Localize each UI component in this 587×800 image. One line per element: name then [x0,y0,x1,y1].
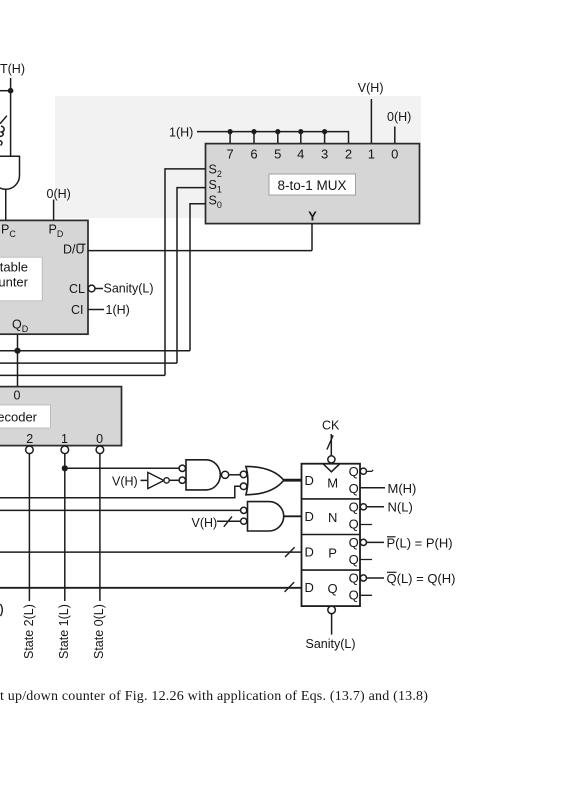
svg-text:1(H): 1(H) [169,126,193,140]
bubble flip-flop sanity input [328,606,336,614]
flip-flop M labels [305,464,359,603]
svg-text:Q: Q [349,571,359,586]
svg-text:7: 7 [226,147,233,162]
wire OR bottom input from long bus [0,486,240,498]
wire CI to 1(H) [88,309,104,311]
bubble AND top input [241,507,247,513]
svg-text:0: 0 [391,147,398,162]
scan background wash [55,96,421,218]
wire Qd down to decoder input [17,334,19,386]
flip-flop divider N/P [302,534,361,536]
svg-text:Q: Q [328,581,338,596]
svg-text:V(H): V(H) [358,81,384,95]
bubble AND bottom input [241,518,247,524]
bubble NAND bottom input [179,477,185,483]
svg-text:CI: CI [71,303,84,317]
flip-flop divider P/Q [302,569,361,571]
bubble NAND top input [179,465,185,471]
svg-text:State 0(L): State 0(L) [92,604,106,659]
svg-text:0: 0 [96,432,103,446]
bubble N Q-bar output [360,504,366,510]
svg-text:Q: Q [349,516,359,531]
svg-text:5: 5 [274,147,281,162]
wire OR output to D of M (thick) [284,479,302,482]
wire N Q-bar to N(L) [367,506,384,508]
svg-text:1(H): 1(H) [106,303,130,317]
svg-text:D: D [305,509,314,524]
svg-text:1: 1 [368,147,375,162]
svg-text:State 2(L): State 2(L) [22,604,36,659]
wire AND top input long bus [0,509,241,511]
svg-text:ecoder: ecoder [0,410,38,425]
junction dot Qd to S0 wire [14,348,20,354]
wire T(H) vertical [10,78,12,156]
MUX input pin numbers [226,147,398,162]
svg-text:1: 1 [61,432,68,446]
bubble inverter output [164,478,169,483]
svg-text:Sanity(L): Sanity(L) [306,637,356,651]
inverter (NOT gate) [148,472,164,488]
wire select S1 from left bus [0,188,206,364]
wire decoder output 1 (State 1) [64,454,66,601]
counter white label box [0,257,42,301]
bubble P Q-bar output [360,539,366,545]
svg-text:D: D [305,473,314,488]
clock edge triangle [323,464,339,472]
svg-text:CL: CL [69,282,85,296]
svg-text:Sanity(L): Sanity(L) [104,282,154,296]
svg-text:0(H): 0(H) [387,110,411,124]
svg-text:Q: Q [349,481,359,496]
decoder white label box [0,405,50,428]
D flip-flop stack box [302,464,361,606]
svg-text:6: 6 [250,147,257,162]
svg-text:Y: Y [308,209,317,224]
svg-text:D: D [305,580,314,595]
svg-text:N: N [328,510,337,525]
svg-text:M: M [327,476,338,491]
svg-text:0(H): 0(H) [47,187,71,201]
bubble NAND output [222,471,229,478]
wire D input of Q (long) [0,587,302,589]
decoder box (cut off at left) [0,387,122,446]
wire AND output to D of N [284,515,302,517]
bubble clock input [328,456,335,463]
NAND gate [186,460,220,490]
stub M Q-bar unused [367,470,374,472]
svg-text:0: 0 [14,389,21,403]
wire V(H) to inverter [141,479,148,481]
wire Q Q-bar to Q(L) label [367,577,384,579]
junction dots on 1(H) bus [228,129,328,134]
wire CL to Sanity(L) [95,288,103,290]
partial State 3(L) label fragment at cut edge [1,604,3,616]
wire CK down to clock bubble [330,434,332,456]
flip-flop divider M/N [302,498,361,500]
wire select S0 from decoder bus [0,204,206,351]
svg-text:unter: unter [0,275,29,290]
svg-text:t up/down counter of Fig. 12.2: t up/down counter of Fig. 12.26 with app… [0,689,428,704]
bubble decoder output 1 [61,446,69,454]
partial XOR gate (cut off at left edge) [0,116,7,146]
svg-text:Q: Q [349,499,359,514]
bubble on CL input [88,285,95,292]
svg-text:Q(L) = Q(H): Q(L) = Q(H) [387,571,456,586]
svg-text:Q: Q [349,464,359,479]
svg-text:P(L) = P(H): P(L) = P(H) [387,536,453,551]
MUX white label box [269,174,356,195]
wire select S2 from left bus [0,169,206,376]
svg-text:CK: CK [322,419,340,433]
bubble OR top input [240,471,247,478]
stub Q Q unused [360,594,372,596]
wire drop to input 5 [277,132,279,144]
svg-text:M(H): M(H) [388,481,417,496]
slash polarity mark on Q wire [285,582,295,592]
wire G1 output to counter pin Pc [5,189,7,220]
OR gate [246,466,284,494]
svg-text:V(H): V(H) [192,516,218,530]
AND gate G1 (pointing down, cut off at left) [0,156,20,189]
svg-text:V(H): V(H) [112,475,138,489]
wire V(H) to MUX input 1 [370,99,372,144]
svg-text:3: 3 [321,147,328,162]
wire decoder output 0 (State 0) [99,454,101,601]
wire drop to input 7 [229,132,231,144]
slash polarity mark on V(H) wire [224,516,232,526]
svg-text:T(H): T(H) [0,62,25,76]
counter box (presettable up/down counter, cut off at left) [0,220,88,334]
slash polarity mark on P wire [285,547,295,557]
AND gate [248,502,284,531]
svg-text:table: table [0,260,28,275]
wire D input of P (long) [0,551,302,553]
wire drop to input 3 [324,132,326,144]
wire State 1 to NAND input [65,467,179,469]
wire drop to input 4 [300,132,302,144]
svg-text:8-to-1 MUX: 8-to-1 MUX [277,178,346,193]
svg-text:P: P [328,546,337,561]
wire NAND to OR input [229,474,241,476]
bubble decoder output 0 [96,446,104,454]
wire drop to input 6 [253,132,255,144]
wire 1(H) bus across MUX inputs 7..2 [197,132,349,144]
wire inverter to NAND input [169,479,178,481]
wire stub left from T(H) junction [0,90,11,92]
bubble M Q-bar output [360,468,366,474]
svg-text:4: 4 [297,147,304,162]
bubble OR bottom input [240,483,247,490]
wire V(H) to AND bottom input [217,520,241,522]
wire P Q-bar to P(L) label [367,541,384,543]
wire decoder output 2 (State 2) [28,454,30,601]
bubble Q Q-bar output [360,575,366,581]
junction dot on T(H) wire [8,88,14,94]
stub P Q unused [360,559,372,561]
svg-text:2: 2 [26,432,33,446]
wire 0(H) to MUX input 0 [394,127,396,144]
wire sanity down [331,614,333,635]
svg-text:2: 2 [345,147,352,162]
bubble decoder output 2 [26,446,34,454]
wire 0(H) to counter pin Pd [53,200,55,221]
svg-text:Q: Q [349,535,359,550]
svg-text:State 1(L): State 1(L) [57,604,71,659]
stub N Q unused [360,524,372,526]
wire Y to counter D/U-bar [88,250,312,252]
svg-text:Q: Q [349,588,359,603]
svg-text:Q: Q [349,552,359,567]
svg-text:N(L): N(L) [388,500,413,515]
8-to-1 MUX box [206,144,420,224]
wire M Q output to M(H) [360,487,385,489]
junction dot on State 1 wire [62,465,68,471]
wire MUX Y output down [311,224,313,251]
svg-text:D: D [305,545,314,560]
slash polarity mark on CK wire [327,435,333,449]
